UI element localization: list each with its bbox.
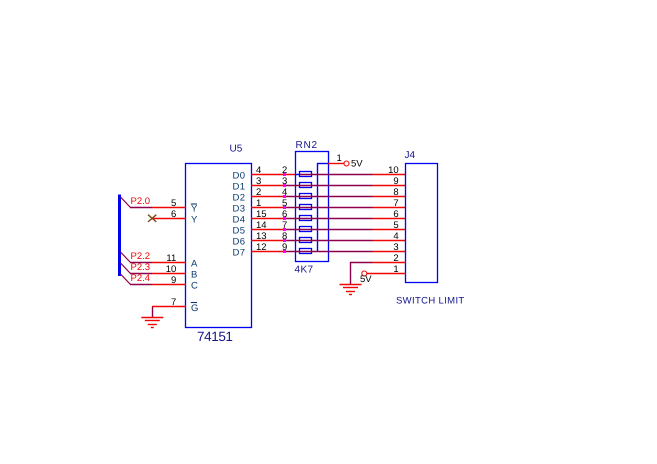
svg-text:12: 12 — [256, 242, 267, 253]
RN2 left pin stub row 1 — [295, 174, 300, 176]
wire maroon segment row D3 through RN2 — [284, 207, 373, 209]
svg-text:Y: Y — [191, 215, 198, 226]
wire U5 pin 1 to RN2 pin 5 (row D3) — [251, 207, 285, 209]
wire maroon segment row D5 through RN2 — [284, 229, 373, 231]
svg-text:D7: D7 — [233, 248, 246, 259]
wire maroon segment row D1 through RN2 — [284, 185, 373, 187]
ground stem at J4 pin 2 — [350, 262, 352, 285]
svg-text:P2.4: P2.4 — [131, 273, 151, 284]
wire U5 pin 3 to RN2 pin 3 (row D1) — [251, 185, 285, 187]
resistor element R4 in RN2 — [300, 205, 312, 210]
wire red segment row D4 to J4 — [373, 218, 407, 220]
ground symbol at U5 pin 7 — [152, 307, 154, 317]
junction dot row D2 — [283, 195, 286, 198]
bus P2 (thick blue vertical) — [118, 195, 121, 277]
svg-text:4: 4 — [256, 165, 261, 176]
svg-text:P2.3: P2.3 — [131, 262, 151, 273]
wire J4 pin 2 maroon segment — [350, 262, 373, 264]
svg-text:1: 1 — [256, 198, 261, 209]
svg-text:1: 1 — [393, 264, 398, 275]
IC U5 74151 multiplexer body — [186, 164, 252, 328]
wire P2.3 maroon segment — [130, 273, 152, 275]
wire red segment row D2 to J4 — [373, 196, 407, 198]
wire U5 pin 13 to RN2 pin 8 (row D6) — [251, 240, 285, 242]
resistor element R6 in RN2 — [300, 227, 312, 232]
connector J4 body — [406, 164, 438, 283]
svg-text:D2: D2 — [233, 193, 246, 204]
wire pin7 red segment — [152, 306, 186, 308]
wire maroon segment row D7 through RN2 — [284, 251, 373, 253]
svg-text:10: 10 — [166, 264, 177, 275]
svg-text:A: A — [191, 259, 198, 270]
svg-text:14: 14 — [256, 220, 267, 231]
svg-text:J4: J4 — [405, 150, 416, 161]
wire U5 pin 12 to RN2 pin 9 (row D7) — [251, 251, 285, 253]
svg-text:9: 9 — [171, 275, 176, 286]
wire red segment row D6 to J4 — [373, 240, 407, 242]
resistor element R1 in RN2 — [300, 172, 312, 177]
RN2 common bus vertical — [317, 163, 319, 252]
svg-text:G: G — [191, 303, 198, 314]
wire red segment row D3 to J4 — [373, 207, 407, 209]
bus entry ramp for P2.4 — [121, 274, 131, 285]
wire maroon segment row D0 through RN2 — [300, 174, 373, 176]
bus entry ramp for P2.0 — [121, 197, 131, 208]
wire pin5 red segment — [152, 207, 186, 209]
resistor element R2 in RN2 — [300, 183, 312, 188]
svg-text:D0: D0 — [233, 171, 246, 182]
junction dot row D1 — [283, 184, 286, 187]
wire red segment row D7 to J4 — [373, 251, 407, 253]
svg-text:6: 6 — [171, 209, 176, 220]
wire U5 pin 4 to RN2 pin 2 (row D0) — [251, 174, 296, 176]
ground symbol at J4 pin 2 — [340, 284, 362, 286]
svg-text:13: 13 — [256, 231, 267, 242]
svg-text:15: 15 — [256, 209, 267, 220]
wire pin9 red segment — [152, 284, 186, 286]
svg-text:P2.2: P2.2 — [131, 251, 151, 262]
wire maroon segment row D6 through RN2 — [284, 240, 373, 242]
junction dot row D3 — [283, 206, 286, 209]
svg-text:2: 2 — [393, 253, 398, 264]
wire red segment row D1 to J4 — [373, 185, 407, 187]
svg-text:D6: D6 — [233, 237, 246, 248]
5V power port circle (J4 pin 1) — [362, 271, 367, 276]
wire P2.0 maroon segment — [130, 207, 152, 209]
svg-text:D5: D5 — [233, 226, 246, 237]
wire maroon segment row D2 through RN2 — [284, 196, 373, 198]
svg-text:P2.0: P2.0 — [131, 196, 151, 207]
svg-text:U5: U5 — [230, 144, 243, 155]
junction dot row D6 — [283, 239, 286, 242]
wire pin10 red segment — [152, 273, 186, 275]
svg-text:D4: D4 — [233, 215, 246, 226]
svg-text:4K7: 4K7 — [295, 265, 314, 276]
svg-text:2: 2 — [256, 187, 261, 198]
wire U5 pin 2 to RN2 pin 4 (row D2) — [251, 196, 285, 198]
resistor network RN2 body — [296, 152, 329, 262]
svg-text:5: 5 — [171, 198, 176, 209]
wire red segment row D5 to J4 — [373, 229, 407, 231]
svg-text:D1: D1 — [233, 182, 246, 193]
junction dot row D0 — [283, 173, 286, 176]
svg-text:5V: 5V — [351, 159, 363, 170]
wire maroon segment row D4 through RN2 — [284, 218, 373, 220]
wire U5 pin 15 to RN2 pin 6 (row D4) — [251, 218, 285, 220]
svg-text:7: 7 — [171, 297, 176, 308]
5V power port circle (RN2 pullup) — [344, 161, 349, 166]
resistor element R3 in RN2 — [300, 194, 312, 199]
junction dot row D4 — [283, 217, 286, 220]
svg-text:RN2: RN2 — [296, 140, 318, 151]
svg-text:5V: 5V — [360, 274, 372, 285]
junction dot row D5 — [283, 228, 286, 231]
resistor element R5 in RN2 — [300, 216, 312, 221]
wire P2.4 maroon segment — [130, 284, 152, 286]
junction dot row D7 — [283, 250, 286, 253]
svg-text:Y: Y — [191, 204, 198, 215]
svg-text:D3: D3 — [233, 204, 246, 215]
svg-text:B: B — [191, 270, 197, 281]
wire pin11 red segment — [152, 262, 186, 264]
svg-text:C: C — [191, 281, 198, 292]
wire U5 pin 14 to RN2 pin 7 (row D5) — [251, 229, 285, 231]
bus entry ramp for P2.3 — [121, 263, 131, 274]
wire P2.2 maroon segment — [130, 262, 152, 264]
no-connect X on pin 6 — [148, 215, 156, 222]
svg-text:1: 1 — [337, 153, 342, 164]
resistor element R7 in RN2 — [300, 238, 312, 243]
wire RN2 pin 1 to 5V — [328, 163, 344, 165]
wire red segment row D0 to J4 — [373, 174, 407, 176]
svg-text:11: 11 — [166, 253, 176, 264]
resistor element R8 in RN2 — [300, 249, 312, 254]
bus entry ramp for P2.2 — [121, 252, 131, 263]
svg-text:74151: 74151 — [197, 329, 233, 344]
svg-text:SWITCH LIMIT: SWITCH LIMIT — [396, 296, 465, 307]
wire pin6 red segment — [153, 218, 186, 220]
RN2 common bus top horizontal to pin 1 — [317, 163, 329, 165]
svg-text:3: 3 — [256, 176, 261, 187]
wire J4 pin 2 red segment — [373, 262, 407, 264]
wire J4 pin 1 red segment — [367, 273, 406, 275]
